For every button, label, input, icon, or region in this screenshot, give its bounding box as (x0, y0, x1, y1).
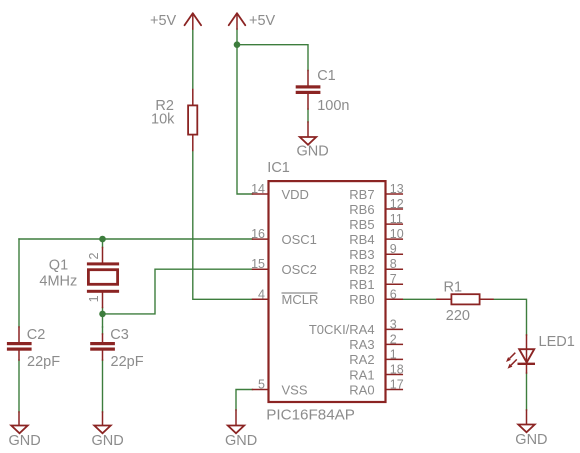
svg-text:VSS: VSS (282, 382, 308, 397)
svg-text:22pF: 22pF (27, 354, 60, 370)
svg-text:2: 2 (390, 332, 397, 346)
svg-text:+5V: +5V (249, 13, 276, 29)
svg-text:4MHz: 4MHz (39, 274, 77, 290)
svg-text:10k: 10k (151, 112, 175, 128)
svg-text:5: 5 (258, 378, 265, 392)
svg-text:2: 2 (87, 253, 101, 260)
svg-text:9: 9 (390, 242, 397, 256)
svg-text:GND: GND (9, 433, 41, 449)
svg-text:C3: C3 (110, 327, 129, 343)
svg-text:R1: R1 (444, 280, 463, 296)
svg-text:220: 220 (446, 308, 470, 324)
svg-text:OSC2: OSC2 (282, 262, 317, 277)
svg-text:11: 11 (390, 212, 403, 226)
svg-text:13: 13 (390, 182, 404, 196)
svg-text:7: 7 (390, 272, 397, 286)
svg-text:RA0: RA0 (349, 382, 374, 397)
svg-text:RB3: RB3 (349, 247, 374, 262)
svg-text:6: 6 (390, 287, 397, 301)
svg-text:VDD: VDD (282, 187, 309, 202)
svg-text:RB5: RB5 (349, 217, 374, 232)
svg-text:RB7: RB7 (349, 187, 374, 202)
svg-text:RB6: RB6 (349, 202, 374, 217)
svg-text:PIC16F84AP: PIC16F84AP (266, 406, 355, 423)
svg-text:IC1: IC1 (267, 160, 290, 176)
svg-text:C1: C1 (317, 68, 336, 84)
svg-text:RA2: RA2 (349, 352, 374, 367)
svg-text:RA3: RA3 (349, 337, 374, 352)
svg-text:MCLR: MCLR (282, 292, 319, 307)
svg-text:OSC1: OSC1 (282, 232, 317, 247)
svg-text:8: 8 (390, 257, 397, 271)
svg-text:10: 10 (390, 227, 404, 241)
svg-text:RB4: RB4 (349, 232, 374, 247)
svg-text:C2: C2 (27, 327, 46, 343)
svg-text:GND: GND (515, 432, 547, 448)
svg-text:15: 15 (251, 257, 265, 271)
svg-text:+5V: +5V (150, 13, 177, 29)
svg-text:GND: GND (225, 433, 257, 449)
svg-text:T0CKI/RA4: T0CKI/RA4 (309, 322, 375, 337)
svg-text:18: 18 (390, 363, 404, 377)
svg-text:3: 3 (390, 317, 397, 331)
svg-text:LED1: LED1 (539, 334, 575, 350)
svg-text:GND: GND (297, 144, 329, 160)
svg-text:22pF: 22pF (111, 354, 144, 370)
svg-text:1: 1 (390, 347, 397, 361)
svg-text:Q1: Q1 (49, 257, 68, 273)
svg-text:1: 1 (87, 295, 101, 302)
svg-text:16: 16 (251, 227, 265, 241)
svg-text:GND: GND (92, 433, 124, 449)
svg-text:RB0: RB0 (349, 292, 374, 307)
svg-text:100n: 100n (317, 98, 349, 114)
svg-text:4: 4 (258, 287, 265, 301)
svg-text:RA1: RA1 (349, 367, 374, 382)
svg-text:RB1: RB1 (349, 277, 374, 292)
svg-text:12: 12 (390, 197, 404, 211)
svg-text:14: 14 (251, 182, 265, 196)
svg-text:17: 17 (390, 378, 404, 392)
svg-text:RB2: RB2 (349, 262, 374, 277)
